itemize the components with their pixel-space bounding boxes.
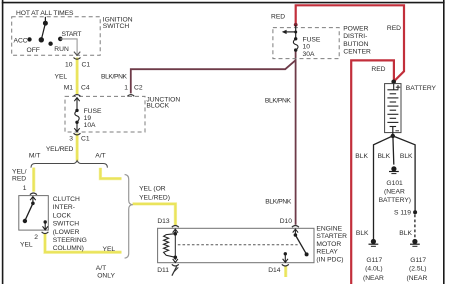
svg-text:BLK/PNK: BLK/PNK <box>101 73 128 80</box>
svg-text:C1: C1 <box>81 135 90 142</box>
svg-text:(IN PDC): (IN PDC) <box>316 257 343 264</box>
svg-text:RED: RED <box>271 14 285 21</box>
svg-text:BLOCK: BLOCK <box>146 102 169 109</box>
svg-text:30A: 30A <box>303 51 315 58</box>
svg-text:YEL (OR: YEL (OR <box>139 186 166 193</box>
svg-text:ACC: ACC <box>14 38 28 45</box>
svg-text:FUSE: FUSE <box>303 36 321 43</box>
svg-text:BLK: BLK <box>400 153 413 160</box>
svg-text:OFF: OFF <box>27 47 40 54</box>
svg-text:START: START <box>62 31 82 38</box>
svg-text:D13: D13 <box>157 218 170 225</box>
svg-text:10: 10 <box>65 61 73 68</box>
svg-text:RED: RED <box>387 25 401 32</box>
svg-text:C1: C1 <box>82 61 91 68</box>
svg-text:3: 3 <box>69 135 73 142</box>
svg-text:CLUTCH: CLUTCH <box>53 196 80 203</box>
svg-text:BLK/PNK: BLK/PNK <box>265 199 292 206</box>
svg-text:10A: 10A <box>84 122 96 129</box>
svg-text:RUN: RUN <box>54 46 69 53</box>
svg-text:STEERING: STEERING <box>53 237 87 244</box>
svg-text:BUTION: BUTION <box>343 41 368 48</box>
svg-text:BLK/PNK: BLK/PNK <box>265 97 292 104</box>
svg-text:G117: G117 <box>410 257 426 264</box>
svg-text:(NEAR: (NEAR <box>363 275 384 282</box>
svg-text:1: 1 <box>23 185 27 192</box>
svg-text:ONLY: ONLY <box>97 273 115 280</box>
svg-text:YEL: YEL <box>103 246 116 253</box>
svg-text:LOCK: LOCK <box>53 212 72 219</box>
svg-text:YEL: YEL <box>55 73 68 80</box>
svg-text:1: 1 <box>124 85 128 92</box>
svg-text:BLK: BLK <box>356 230 369 237</box>
svg-text:COLUMN): COLUMN) <box>53 245 84 252</box>
svg-text:MOTOR: MOTOR <box>316 241 341 248</box>
svg-text:A/T: A/T <box>95 153 105 160</box>
svg-text:BLK: BLK <box>377 153 390 160</box>
svg-text:BATTERY: BATTERY <box>406 85 437 92</box>
svg-text:10: 10 <box>303 43 311 50</box>
svg-text:YEL: YEL <box>20 242 33 249</box>
svg-text:(NEAR: (NEAR <box>384 188 405 195</box>
svg-text:YEL/RED: YEL/RED <box>46 146 74 153</box>
svg-text:(NEAR: (NEAR <box>406 275 427 282</box>
svg-text:D10: D10 <box>280 218 293 225</box>
svg-text:SWITCH: SWITCH <box>103 23 130 30</box>
svg-text:(LOWER: (LOWER <box>53 229 80 236</box>
svg-text:S 119: S 119 <box>394 210 411 217</box>
svg-text:G101: G101 <box>386 180 403 187</box>
svg-text:STARTER: STARTER <box>316 233 347 240</box>
svg-text:C2: C2 <box>134 85 143 92</box>
svg-text:DISTRI-: DISTRI- <box>343 33 367 40</box>
svg-text:HOT AT ALL TIMES: HOT AT ALL TIMES <box>16 10 74 17</box>
svg-text:YEL/: YEL/ <box>12 168 27 175</box>
svg-text:RED: RED <box>371 66 385 73</box>
svg-text:ENGINE: ENGINE <box>316 225 342 232</box>
svg-text:A/T: A/T <box>96 265 106 272</box>
svg-text:19: 19 <box>84 115 92 122</box>
svg-text:SWITCH: SWITCH <box>53 221 80 228</box>
svg-text:BLK: BLK <box>355 153 368 160</box>
svg-text:INTER-: INTER- <box>53 204 75 211</box>
svg-text:G117: G117 <box>366 257 382 264</box>
svg-text:M/T: M/T <box>29 153 41 160</box>
svg-text:C4: C4 <box>81 85 90 92</box>
svg-text:CENTER: CENTER <box>343 48 371 55</box>
svg-text:BATTERY): BATTERY) <box>379 197 411 204</box>
svg-text:M1: M1 <box>64 85 74 92</box>
svg-text:RED: RED <box>12 176 26 183</box>
svg-text:2: 2 <box>34 234 38 241</box>
svg-text:POWER: POWER <box>343 26 368 33</box>
svg-text:(2.5L): (2.5L) <box>409 266 426 273</box>
svg-text:(4.0L): (4.0L) <box>365 266 382 273</box>
svg-text:D14: D14 <box>268 267 281 274</box>
svg-text:YEL/RED): YEL/RED) <box>139 194 170 201</box>
svg-text:RELAY: RELAY <box>316 249 338 256</box>
svg-text:BLK: BLK <box>399 230 412 237</box>
svg-text:FUSE: FUSE <box>84 108 102 115</box>
svg-text:D11: D11 <box>157 267 169 274</box>
